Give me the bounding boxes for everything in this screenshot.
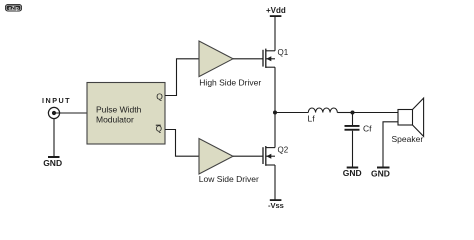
wire Q1 source to output node: [274, 67, 276, 112]
label Pulse Width Modulator: [96, 104, 142, 124]
svg-text:Q: Q: [156, 124, 162, 133]
svg-text:GND: GND: [343, 168, 362, 178]
wire Q output to high side driver: [165, 59, 200, 96]
svg-text:Lf: Lf: [308, 114, 316, 124]
power -Vss: [268, 199, 284, 210]
low side driver A2: [199, 139, 233, 175]
inductor Lf: [308, 108, 337, 113]
ground (speaker): [377, 167, 390, 169]
node Cf junction: [351, 111, 355, 115]
svg-text:Pulse Width: Pulse Width: [96, 104, 142, 114]
ground (Cf): [347, 167, 359, 169]
capacitor Cf: [345, 125, 360, 131]
svg-text:GND: GND: [371, 168, 390, 178]
wire Q2 drain to output node: [274, 113, 276, 148]
wire Q2 source to -Vss: [274, 165, 276, 200]
wire Q1 drain to +Vdd: [274, 16, 276, 51]
svg-text:+Vdd: +Vdd: [266, 6, 286, 15]
wire Qbar output to low side driver: [165, 130, 200, 157]
svg-text:Cf: Cf: [363, 124, 372, 134]
transistor Q1 (N-MOSFET): [263, 49, 275, 68]
logo badge: [5, 4, 22, 12]
svg-text:INPUT: INPUT: [42, 96, 71, 105]
ground (input): [48, 156, 60, 158]
svg-text:Speaker: Speaker: [392, 134, 424, 144]
svg-text:-Vss: -Vss: [268, 201, 284, 210]
node output junction: [273, 111, 277, 115]
speaker LS1: [398, 98, 424, 136]
svg-text:Q2: Q2: [278, 146, 289, 155]
op-amp U1 Pulse Width Modulator box: [87, 83, 165, 145]
wire input to PWM: [54, 112, 87, 114]
input connector J1: [48, 107, 59, 118]
wire Cf bottom plate to ground: [352, 131, 354, 167]
wire Cf node to speaker: [353, 112, 399, 114]
power +Vdd: [266, 6, 286, 17]
wire node to Cf top plate: [352, 113, 354, 126]
svg-text:High Side Driver: High Side Driver: [199, 78, 261, 88]
svg-text:Modulator: Modulator: [96, 114, 134, 124]
wire low driver to Q2 gate: [233, 155, 263, 157]
svg-text:Q: Q: [156, 92, 163, 102]
pin Qbar label: [156, 124, 162, 133]
svg-text:Low Side Driver: Low Side Driver: [199, 174, 259, 184]
wire high driver to Q1 gate: [233, 58, 263, 60]
transistor Q2 (N-MOSFET): [263, 146, 275, 166]
svg-text:Q1: Q1: [278, 48, 289, 57]
wire input to ground: [53, 119, 55, 157]
svg-text:eZip: eZip: [9, 6, 19, 12]
wire Lf to Cf node: [337, 112, 352, 114]
high side driver A1: [199, 41, 233, 77]
wire output node to Lf: [275, 112, 308, 114]
wire speaker return: [383, 122, 398, 167]
svg-text:GND: GND: [43, 158, 62, 168]
